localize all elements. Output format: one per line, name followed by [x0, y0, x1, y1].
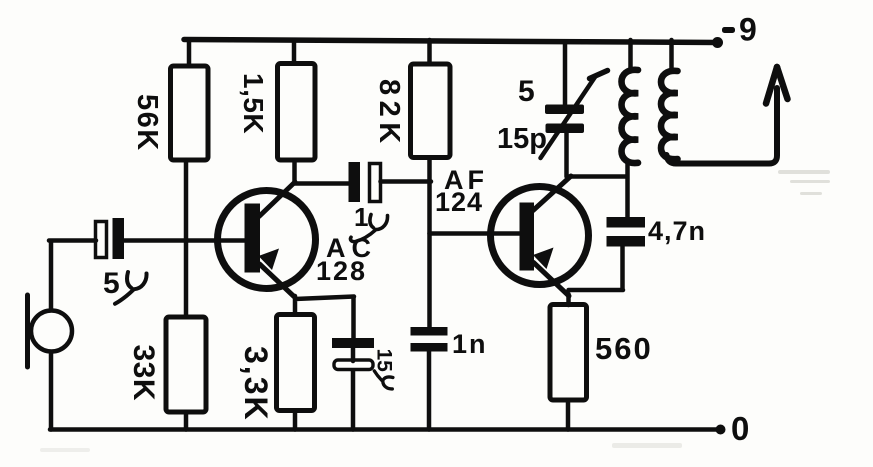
- label AC 128: [316, 233, 377, 286]
- transistor Q1 AC128: [218, 182, 316, 297]
- wire: L2 bottom to antenna: [667, 88, 778, 164]
- svg-text:1n: 1n: [452, 329, 488, 359]
- label 15u: [373, 349, 396, 389]
- wire: C2 to Q2 base node: [381, 179, 432, 184]
- transistor Q2 AF124: [491, 176, 589, 296]
- capacitor C2 1u interstage coupling: [349, 162, 381, 202]
- resistor R3 1,5K collector load: [278, 40, 316, 160]
- svg-text:3,3K: 3,3K: [238, 346, 274, 422]
- wire: node A vertical (R1 bottom to R2 top): [184, 160, 189, 317]
- resistor R5 3,3K emitter: [277, 315, 315, 430]
- wire: Q2 emitter vertical: [566, 294, 571, 305]
- resistor R4 82K: [411, 40, 451, 158]
- node: ground terminal dot: [716, 425, 726, 435]
- scan artifact ghosts (decorative): [40, 170, 830, 452]
- svg-text:124: 124: [435, 187, 483, 217]
- resistor R6 560 emitter: [550, 305, 587, 430]
- capacitor C4 15u emitter bypass: [332, 297, 374, 430]
- label 1u: [351, 202, 388, 242]
- svg-text:15p: 15p: [497, 123, 547, 155]
- inductor L2 antenna coupling coil: [661, 40, 678, 159]
- svg-text:0: 0: [731, 410, 749, 447]
- svg-text:5: 5: [103, 267, 120, 300]
- wire: Q2 base: [430, 231, 522, 236]
- svg-text:1,5K: 1,5K: [238, 73, 269, 134]
- label AF 124: [435, 165, 488, 217]
- node: supply terminal dot: [712, 37, 723, 48]
- microphone MIC: [28, 295, 73, 367]
- wire: mic to C1: [49, 241, 96, 430]
- svg-text:1: 1: [354, 202, 368, 232]
- wire: C1 to base node A: [124, 238, 248, 243]
- svg-text:56K: 56K: [131, 94, 163, 152]
- wire: R4 bottom to C3 (through base junction): [427, 158, 432, 328]
- resistor R2 33K: [166, 317, 206, 430]
- label -9 supply: [722, 12, 757, 48]
- wire: C3 to ground rail: [427, 352, 432, 430]
- svg-text:5: 5: [518, 75, 535, 108]
- label 5u: [103, 267, 147, 304]
- wire: Q1 collector node to C2: [295, 160, 350, 184]
- svg-text:4,7n: 4,7n: [648, 216, 706, 246]
- capacitor C1 5u input coupling: [96, 218, 125, 259]
- trimmer capacitor C5 5/15p: [541, 42, 608, 158]
- svg-text:82K: 82K: [373, 79, 405, 149]
- svg-text:33K: 33K: [127, 345, 160, 402]
- wire: C6 bottom to Q2 emitter: [569, 247, 624, 291]
- resistor R1 56K: [171, 40, 209, 160]
- capacitor C3 1n: [411, 327, 448, 352]
- wire: top supply rail -9V: [184, 40, 718, 43]
- capacitor C6 4,7n: [607, 217, 646, 247]
- svg-text:9: 9: [739, 12, 757, 48]
- svg-text:15: 15: [373, 349, 396, 373]
- inductor L1 tank coil: [622, 40, 639, 219]
- svg-text:560: 560: [595, 331, 653, 366]
- svg-text:128: 128: [316, 256, 367, 286]
- wire: bottom ground rail 0V: [50, 427, 716, 432]
- wire: Q2 collector vertical to trimmer: [564, 131, 569, 177]
- antenna arrow: [766, 67, 788, 104]
- wire: Q1 emitter node: [295, 296, 354, 315]
- wire: collector node horizontal to L1/C6: [568, 174, 628, 179]
